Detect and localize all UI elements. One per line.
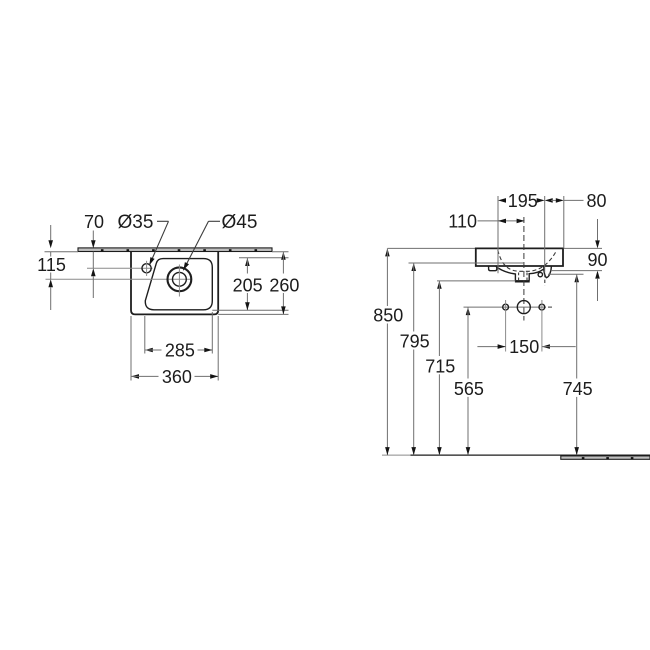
dimension 850 bbox=[373, 248, 403, 455]
svg-text:150: 150 bbox=[509, 337, 539, 357]
svg-text:745: 745 bbox=[563, 379, 593, 399]
hole Ø35 bbox=[142, 264, 151, 273]
svg-text:115: 115 bbox=[37, 255, 66, 275]
extension line bowl top y=258 bbox=[239, 257, 289, 259]
wall section bar bbox=[78, 248, 272, 252]
washbasin outer rim (top view) bbox=[131, 252, 218, 315]
tap centerline y=279 bbox=[46, 278, 193, 280]
trap bottom thick bbox=[515, 280, 530, 282]
dimension 110 bbox=[448, 211, 524, 231]
bowl underside and trap bbox=[496, 266, 543, 281]
svg-text:90: 90 bbox=[587, 250, 607, 270]
tap hole Ø45 bbox=[168, 267, 192, 291]
trap hidden pipe dashes bbox=[518, 273, 520, 281]
795 reference line y=259.2 bbox=[409, 262, 525, 264]
dimension 205 bbox=[233, 258, 263, 310]
dimension 285 bbox=[145, 341, 213, 361]
dimension 70 bbox=[84, 212, 104, 298]
svg-text:850: 850 bbox=[373, 306, 403, 326]
extension lines from fixing holes bbox=[505, 300, 507, 352]
svg-text:260: 260 bbox=[269, 275, 299, 295]
wall face extension line left bbox=[45, 251, 79, 253]
dimension 360 bbox=[131, 367, 218, 387]
extension line x=544.7 bbox=[544, 196, 546, 273]
svg-text:70: 70 bbox=[84, 212, 104, 232]
extension line rim bottom y=314.4 bbox=[218, 313, 288, 315]
bowl interior dashed profile bbox=[498, 250, 557, 271]
left fixing hole bbox=[503, 304, 509, 310]
fixing holes row line y=307.1 bbox=[464, 306, 547, 308]
dimension 565 bbox=[454, 307, 484, 455]
lug centre dashes x=544.8 bbox=[544, 274, 546, 286]
svg-text:Ø45: Ø45 bbox=[222, 212, 258, 233]
hole centerline y=268 bbox=[87, 267, 153, 269]
dimension 80 bbox=[545, 191, 607, 211]
right fixing hole bbox=[539, 304, 545, 310]
715 reference line y=280.7 bbox=[437, 280, 515, 282]
svg-text:205: 205 bbox=[233, 275, 263, 295]
extension line bowl bottom y=310 bbox=[212, 309, 288, 311]
wall face extension line right bbox=[272, 251, 289, 253]
dimension 150 bbox=[477, 337, 575, 357]
extension line x=498 bbox=[497, 196, 499, 273]
svg-text:565: 565 bbox=[454, 379, 484, 399]
wall top line bbox=[388, 247, 603, 249]
floor line bbox=[382, 454, 411, 456]
dimension 795 bbox=[400, 263, 430, 455]
overflow hole ring bbox=[538, 272, 542, 276]
dimension 260 bbox=[269, 252, 299, 315]
basin body front view bbox=[476, 248, 563, 266]
dimension 115 bbox=[37, 225, 66, 310]
extension line x=563.8 bbox=[563, 196, 565, 248]
floor section bar bbox=[561, 456, 650, 459]
svg-text:715: 715 bbox=[425, 356, 455, 376]
drain hole bbox=[517, 301, 530, 314]
svg-text:360: 360 bbox=[162, 367, 192, 387]
dimension 195 bbox=[498, 191, 545, 211]
745 reference line y=274.3 bbox=[548, 273, 584, 275]
dimension 745 bbox=[563, 274, 593, 455]
svg-text:285: 285 bbox=[165, 341, 195, 361]
extension lines for 285 bbox=[144, 316, 146, 354]
dimension 90 bbox=[587, 219, 607, 301]
svg-text:Ø35: Ø35 bbox=[118, 212, 154, 233]
svg-text:195: 195 bbox=[508, 191, 538, 211]
svg-text:110: 110 bbox=[448, 211, 477, 231]
right fixing hook bbox=[544, 266, 552, 277]
leader label Ø35 bbox=[118, 212, 169, 265]
svg-text:795: 795 bbox=[400, 332, 430, 352]
centre line dashed x=523.9 bbox=[523, 217, 525, 321]
dimension 715 bbox=[425, 281, 455, 455]
left fixing tab bbox=[489, 266, 497, 271]
extension lines for 360 bbox=[130, 316, 132, 381]
inner bowl outline bbox=[145, 259, 212, 310]
svg-text:80: 80 bbox=[587, 191, 607, 211]
leader label Ø45 bbox=[183, 212, 257, 270]
basin bottom line right y=270.2 bbox=[551, 270, 602, 272]
